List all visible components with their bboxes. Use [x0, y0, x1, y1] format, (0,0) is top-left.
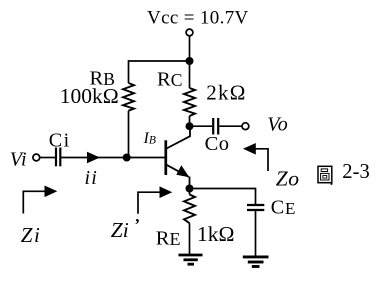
- wire CE top lead: [255, 188, 257, 204]
- capacitor Ci: [55, 148, 57, 167]
- svg-text:RC: RC: [157, 68, 182, 90]
- ground CE: [243, 257, 269, 267]
- resistor RC: [184, 88, 195, 116]
- svg-text:RE: RE: [156, 227, 181, 249]
- resistor RE: [184, 195, 195, 224]
- ground RE: [179, 255, 203, 264]
- terminal Vo: [242, 123, 249, 130]
- capacitor Co: [212, 118, 214, 135]
- wire emitter to emitter node: [189, 177, 191, 189]
- svg-text:Vi: Vi: [10, 149, 27, 171]
- terminal Vi: [33, 154, 40, 161]
- resistor RB: [123, 83, 134, 111]
- terminal Vcc: [186, 29, 193, 36]
- svg-text:ii: ii: [85, 167, 99, 189]
- node base junction: [123, 154, 131, 162]
- svg-text:Zo: Zo: [276, 166, 300, 190]
- wire RE top lead: [189, 189, 191, 195]
- svg-text:2kΩ: 2kΩ: [206, 81, 246, 105]
- arrow current ii: [87, 152, 100, 164]
- transistor Q1 emitter arrow: [176, 165, 189, 177]
- node collector junction: [186, 122, 194, 130]
- svg-text:Ci: Ci: [49, 130, 71, 152]
- capacitor CE: [247, 204, 264, 206]
- arrow Zi: [23, 191, 47, 213]
- svg-text:100kΩ: 100kΩ: [60, 84, 119, 108]
- wire collector node to Co: [190, 125, 213, 127]
- svg-text:Zi: Zi: [21, 223, 42, 247]
- transistor Q1 base bar: [164, 140, 167, 175]
- node supply junction: [186, 57, 194, 65]
- figure caption glyph 圖: [318, 166, 332, 185]
- wire emitter node to CE: [190, 188, 256, 190]
- arrow Zo: [243, 143, 256, 155]
- svg-text:CE: CE: [271, 197, 296, 219]
- wire RC top lead: [189, 61, 191, 88]
- transistor Q1 collector: [167, 127, 191, 149]
- svg-text:2-3: 2-3: [342, 161, 369, 183]
- wire RB bottom lead to base node: [128, 111, 130, 158]
- wire supply node to RB branch: [129, 60, 190, 62]
- svg-text:Co: Co: [205, 133, 230, 155]
- svg-text:1kΩ: 1kΩ: [197, 222, 234, 246]
- arrow Zi prime: [138, 192, 162, 214]
- wire Vcc terminal to supply node: [189, 36, 191, 61]
- wire CE to ground: [255, 211, 257, 256]
- node emitter junction: [186, 185, 194, 193]
- wire RE to ground: [189, 223, 191, 254]
- wire RB top lead: [128, 60, 130, 83]
- svg-text:Zi: Zi: [111, 218, 129, 242]
- transistor Q1 emitter: [167, 165, 189, 177]
- wire Ci to base: [61, 157, 165, 159]
- svg-text:Vcc = 10.7V: Vcc = 10.7V: [147, 7, 249, 28]
- wire RC bottom to collector node: [189, 116, 191, 126]
- wire Co to Vo terminal: [219, 125, 242, 127]
- svg-text:’: ’: [134, 215, 140, 234]
- svg-text:Vo: Vo: [267, 113, 288, 135]
- wire Vi terminal to Ci: [40, 157, 55, 159]
